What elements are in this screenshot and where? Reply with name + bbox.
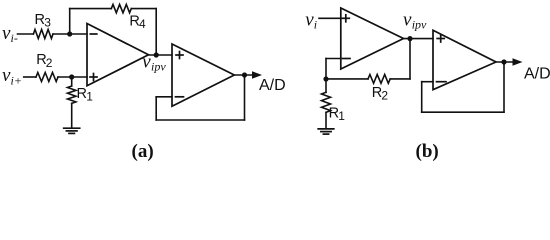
node A junction [67,31,72,36]
wire U2 feedback down [244,75,246,120]
node U2 output junction [242,72,247,77]
resistor R1 [68,86,76,103]
input label v_i+ [2,65,22,88]
wire U2 feedback bottom [156,119,244,121]
svg-text:2: 2 [381,88,388,102]
svg-text:(a): (a) [132,141,154,162]
wire R1 to ground (b) [325,112,327,128]
arrow to A/D (a) [252,71,262,79]
wire U4 feedback down [503,62,505,112]
svg-text:v: v [403,9,412,30]
wire inverting input down to node C [325,59,327,80]
label R2 (b) [372,85,389,103]
wire U2 feedback up [155,97,157,120]
label R2 [36,52,53,70]
wire node C to R2 [326,78,368,80]
wire R3 to op-amp U1 inverting input [53,33,87,35]
wire U4 feedback to inverting input [422,81,433,83]
svg-text:A/D: A/D [259,77,286,94]
caption (b) [416,141,439,162]
label v_ipv (b) [403,9,427,31]
caption (a) [132,141,154,162]
svg-text:i: i [314,17,317,31]
svg-text:(b): (b) [416,141,439,162]
wire U3 inverting input [326,58,341,60]
svg-text:4: 4 [139,17,146,31]
op-amp U4 [433,30,496,89]
label R1 [77,86,94,104]
svg-text:i-: i- [11,31,18,45]
label A/D (a) [259,77,286,94]
arrow to A/D (b) [513,58,523,66]
label R4 [129,14,146,32]
resistor R1 (b) [322,92,331,112]
wire R4 down to output node vipv [155,9,157,55]
wire top feedback left segment [70,8,112,10]
op-amp U1 [87,24,149,86]
wire U4 feedback bottom [422,111,504,113]
label R3 [35,12,52,30]
wire node B down to R1 [71,77,73,86]
wire U2 output [234,74,253,76]
wire node A up to top feedback [69,9,71,34]
node B junction [69,74,74,79]
wire R2 to op-amp U1 non-inverting input [58,76,87,78]
label v_ipv [142,51,166,73]
resistor R2 (b) [368,75,390,84]
wire R2 to feedback riser [390,78,410,80]
node vipv (b) junction [407,36,412,41]
svg-text:1: 1 [338,109,345,123]
label A/D (b) [524,66,550,83]
wire vi to op-amp U3 non-inverting input [319,17,341,19]
wire U4 feedback up [421,82,423,113]
svg-text:i+: i+ [11,74,22,88]
wire feedback riser up to output [409,39,411,79]
wire U1 output to node vipv / U2 input [149,54,173,56]
svg-text:3: 3 [44,16,51,30]
svg-text:ipv: ipv [151,59,166,73]
svg-text:v: v [142,51,151,72]
svg-text:A/D: A/D [524,66,550,83]
resistor R2 [36,73,58,82]
wire node C down to R1 (b) [325,79,327,92]
ground (a) [64,128,80,133]
node vipv junction [154,52,159,57]
op-amp U2 [172,44,234,106]
svg-text:1: 1 [86,89,93,103]
label R1 (b) [329,105,346,123]
wire R1 to ground [71,103,73,128]
wire U3 output to U4 non-inverting input [404,38,434,40]
ground (b) [318,129,334,134]
wire U4 output [496,61,514,63]
resistor R3 [33,30,53,39]
wire U2 feedback to inverting input [156,96,172,98]
node U4 output junction [501,59,506,64]
wire vi- to R3 [18,33,34,35]
wire top feedback right segment [131,8,156,10]
input label v_i- [2,23,18,45]
resistor R4 [111,4,131,12]
svg-text:2: 2 [46,56,53,70]
svg-text:ipv: ipv [412,17,427,31]
input label v_i [305,9,317,31]
wire vi+ to R2 [24,76,36,78]
node C junction [323,76,328,81]
op-amp U3 [341,8,404,69]
